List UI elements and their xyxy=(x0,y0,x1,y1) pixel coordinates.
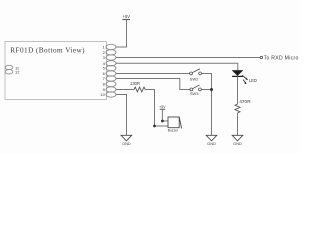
wire pin7 down to SW3 xyxy=(116,79,190,90)
module U1 RF01D box xyxy=(5,42,107,100)
wire pin9 to resistor R1 xyxy=(116,89,134,91)
svg-text:To RXD Micro: To RXD Micro xyxy=(264,55,299,61)
svg-text:Buzzer: Buzzer xyxy=(168,129,179,133)
wire SW3 to ground rail xyxy=(201,89,211,91)
svg-text:SW3: SW3 xyxy=(190,91,199,96)
switch SW2 xyxy=(190,69,202,82)
pin 1 xyxy=(106,44,116,49)
LED D1 xyxy=(232,70,248,84)
pin 9 xyxy=(106,87,116,92)
resistor R1 130R horizontal zigzag xyxy=(134,87,145,92)
svg-text:GND: GND xyxy=(207,141,216,146)
svg-text:+5V: +5V xyxy=(123,14,131,19)
junction dot rail/SW3 xyxy=(210,88,213,91)
junction dot buzzer plus xyxy=(161,120,164,123)
svg-text:5: 5 xyxy=(103,66,106,71)
pin 3 xyxy=(106,55,116,60)
svg-text:7: 7 xyxy=(103,76,106,81)
svg-text:LED: LED xyxy=(249,78,257,83)
svg-text:RF01D (Bottom View): RF01D (Bottom View) xyxy=(10,47,85,55)
wire pin3 to RXD terminal xyxy=(116,57,260,59)
wire pin4 to LED branch xyxy=(116,63,238,70)
ground GND1 xyxy=(121,135,132,146)
power +5V (top) xyxy=(123,14,131,20)
pin 5 xyxy=(106,65,116,70)
buzzer LS1 xyxy=(168,117,182,133)
svg-text:GND: GND xyxy=(233,141,242,146)
power +5V (buzzer) xyxy=(159,105,166,109)
wire +5V riser to pin1 xyxy=(116,20,127,47)
svg-text:12: 12 xyxy=(15,70,20,75)
svg-text:470R: 470R xyxy=(239,99,251,105)
wire pin10 to GND1 xyxy=(116,95,127,136)
svg-text:+5V: +5V xyxy=(159,105,166,109)
svg-text:10: 10 xyxy=(100,92,105,97)
pin 8 xyxy=(106,81,116,86)
wire R1 to buzzer minus xyxy=(145,90,168,127)
pin 11 xyxy=(5,65,13,69)
ground GND3 xyxy=(232,135,243,146)
pin 2 xyxy=(106,50,116,55)
pin 12 xyxy=(5,70,13,74)
resistor R2 470R vertical zigzag xyxy=(235,104,240,113)
ground GND2 xyxy=(206,135,217,146)
svg-text:3: 3 xyxy=(103,55,106,60)
junction dot buzzer minus xyxy=(153,125,156,128)
switch SW3 xyxy=(190,85,201,96)
wire SW2 to ground rail xyxy=(202,74,212,136)
wire LED to resistor R2 xyxy=(237,76,239,104)
pin 6 xyxy=(106,71,116,76)
wire pin6 to switch SW2 xyxy=(116,73,190,75)
svg-text:130R: 130R xyxy=(130,81,140,86)
svg-text:SW2: SW2 xyxy=(190,76,199,81)
pin 7 xyxy=(106,76,116,81)
wire resistor to GND3 xyxy=(237,113,239,135)
svg-text:8: 8 xyxy=(103,82,106,87)
svg-text:GND: GND xyxy=(122,141,131,146)
pin 10 xyxy=(106,92,116,97)
terminal circle To RXD Micro xyxy=(260,56,262,58)
pin 4 xyxy=(106,61,116,66)
svg-text:1: 1 xyxy=(103,45,106,50)
wire +5V to buzzer plus xyxy=(162,109,167,121)
